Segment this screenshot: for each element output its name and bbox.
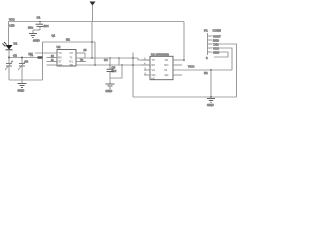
svg-text:GND: GND: [213, 50, 219, 54]
svg-text:GND: GND: [106, 89, 114, 93]
node J-119-58: [118, 57, 120, 59]
wire diode to loop: [8, 50, 10, 58]
capacitor C5: [107, 69, 114, 84]
IC U1: [150, 56, 173, 79]
node J-133-65: [132, 64, 134, 66]
svg-text:GND: GND: [33, 39, 41, 43]
node J-osc-left: [8, 57, 10, 59]
wire oscillator loop top: [9, 57, 43, 59]
svg-text:Q1: Q1: [52, 34, 56, 38]
pin U2.6: [76, 61, 86, 63]
wire bottom rail: [133, 96, 237, 98]
wire x122 tail: [110, 65, 122, 78]
capacitor C1: [33, 22, 44, 34]
pin U1.7: [173, 64, 182, 66]
wire left rail drop: [8, 22, 10, 46]
svg-text:6: 6: [206, 56, 208, 60]
IC U2: [57, 50, 76, 67]
crystal Y1: [38, 56, 44, 58]
wire x110 drop: [109, 58, 111, 69]
svg-text:U1 MAX3232: U1 MAX3232: [151, 52, 169, 56]
svg-text:VCC: VCC: [9, 17, 15, 21]
capacitor C3 (trimmer): [18, 58, 26, 81]
node J-133-58: [132, 57, 134, 59]
pin U1.5: [173, 74, 182, 76]
wire VCC top rail: [9, 21, 185, 23]
svg-text:VCC: VCC: [188, 65, 195, 69]
svg-text:C3: C3: [25, 60, 29, 64]
node J-211-97: [210, 96, 212, 98]
svg-text:C2: C2: [13, 53, 17, 57]
pin U2.5 / wire row B: [76, 64, 150, 66]
svg-text:C1: C1: [37, 16, 41, 20]
pin U2.4: [47, 64, 58, 66]
wire P1 pin5 jog: [214, 52, 228, 57]
svg-text:10u: 10u: [28, 26, 33, 30]
wire VCC feed: [43, 41, 96, 43]
svg-text:CON5: CON5: [213, 29, 222, 33]
label U2 pin names right: [70, 51, 74, 67]
pin U1.4: [144, 74, 150, 76]
svg-text:RX: RX: [58, 56, 62, 60]
capacitor C2 (trimmer): [5, 58, 13, 81]
label U1 pin names right: [165, 58, 169, 77]
pin U2.8: [76, 52, 85, 54]
node J-92-58: [91, 57, 93, 59]
svg-text:GD: GD: [165, 73, 169, 77]
power symbol VCC: [90, 2, 96, 22]
ground GND1: [18, 80, 27, 88]
node J-184-60: [183, 59, 185, 61]
node J-122-65: [121, 64, 123, 66]
node J-110-65: [109, 64, 111, 66]
svg-text:NC: NC: [152, 76, 156, 80]
svg-text:VC: VC: [70, 51, 74, 55]
svg-text:D1: D1: [14, 42, 18, 46]
svg-text:C4: C4: [104, 58, 108, 62]
connector P1: [208, 33, 213, 55]
svg-text:GND: GND: [207, 103, 215, 107]
svg-text:U2: U2: [57, 45, 61, 49]
svg-text:16: 16: [84, 48, 87, 52]
svg-text:RX: RX: [152, 63, 156, 67]
wire pin8 drop: [84, 53, 86, 58]
wire oscillator loop bottom: [9, 79, 43, 81]
pin U2.3: [47, 61, 58, 63]
node J-92-42: [91, 41, 93, 43]
label U2 pin names left: [58, 51, 62, 67]
pin U1.2: [141, 64, 150, 66]
node J-95-65: [94, 64, 96, 66]
svg-text:GND: GND: [18, 89, 26, 93]
node J-110-58: [109, 57, 111, 59]
wire P1 pin3 loop: [219, 44, 237, 97]
svg-text:TX: TX: [152, 58, 156, 62]
svg-text:104: 104: [44, 24, 49, 28]
svg-text:TX: TX: [58, 51, 62, 55]
svg-text:P1: P1: [204, 29, 208, 33]
pin U2.2: [47, 57, 58, 59]
wire x119 drop: [118, 58, 120, 65]
pin U2.7 / wire row A: [76, 57, 138, 59]
ground GND2: [29, 34, 37, 38]
svg-text:LED: LED: [10, 24, 15, 28]
pin U1.3: [144, 69, 150, 71]
svg-text:M1: M1: [66, 38, 70, 42]
svg-text:VD: VD: [165, 58, 169, 62]
svg-text:RX: RX: [29, 52, 33, 56]
svg-text:R2: R2: [204, 71, 208, 75]
wire P1 pin4 to U1: [219, 48, 232, 70]
pin U1.6 / wire long row: [173, 69, 232, 71]
pin U1.1: [141, 59, 150, 61]
pin U2.1: [35, 52, 57, 54]
wire ground tap: [210, 70, 212, 97]
node J-C1: [39, 21, 41, 23]
node J-osc-mid: [21, 57, 23, 59]
ground GND3: [106, 84, 115, 88]
diode D1: [3, 42, 13, 50]
wire oscillator loop right: [42, 42, 44, 80]
svg-text:SE: SE: [70, 63, 74, 67]
wire row A jog: [138, 58, 150, 60]
svg-text:DI: DI: [165, 68, 168, 72]
label U1 pin names left: [152, 58, 156, 80]
wire drop x95: [94, 42, 96, 65]
wire VCC drop x92: [91, 22, 93, 59]
svg-text:VC: VC: [152, 68, 156, 72]
svg-text:GN: GN: [58, 63, 62, 67]
wire rail right drop: [183, 22, 185, 61]
pin U1.8: [173, 59, 184, 61]
wire x133 drop: [132, 53, 134, 98]
ground GND4: [207, 99, 215, 103]
node J-211-70: [210, 69, 212, 71]
svg-text:RO: RO: [165, 63, 169, 67]
label U1 pin numbers: [144, 56, 147, 75]
